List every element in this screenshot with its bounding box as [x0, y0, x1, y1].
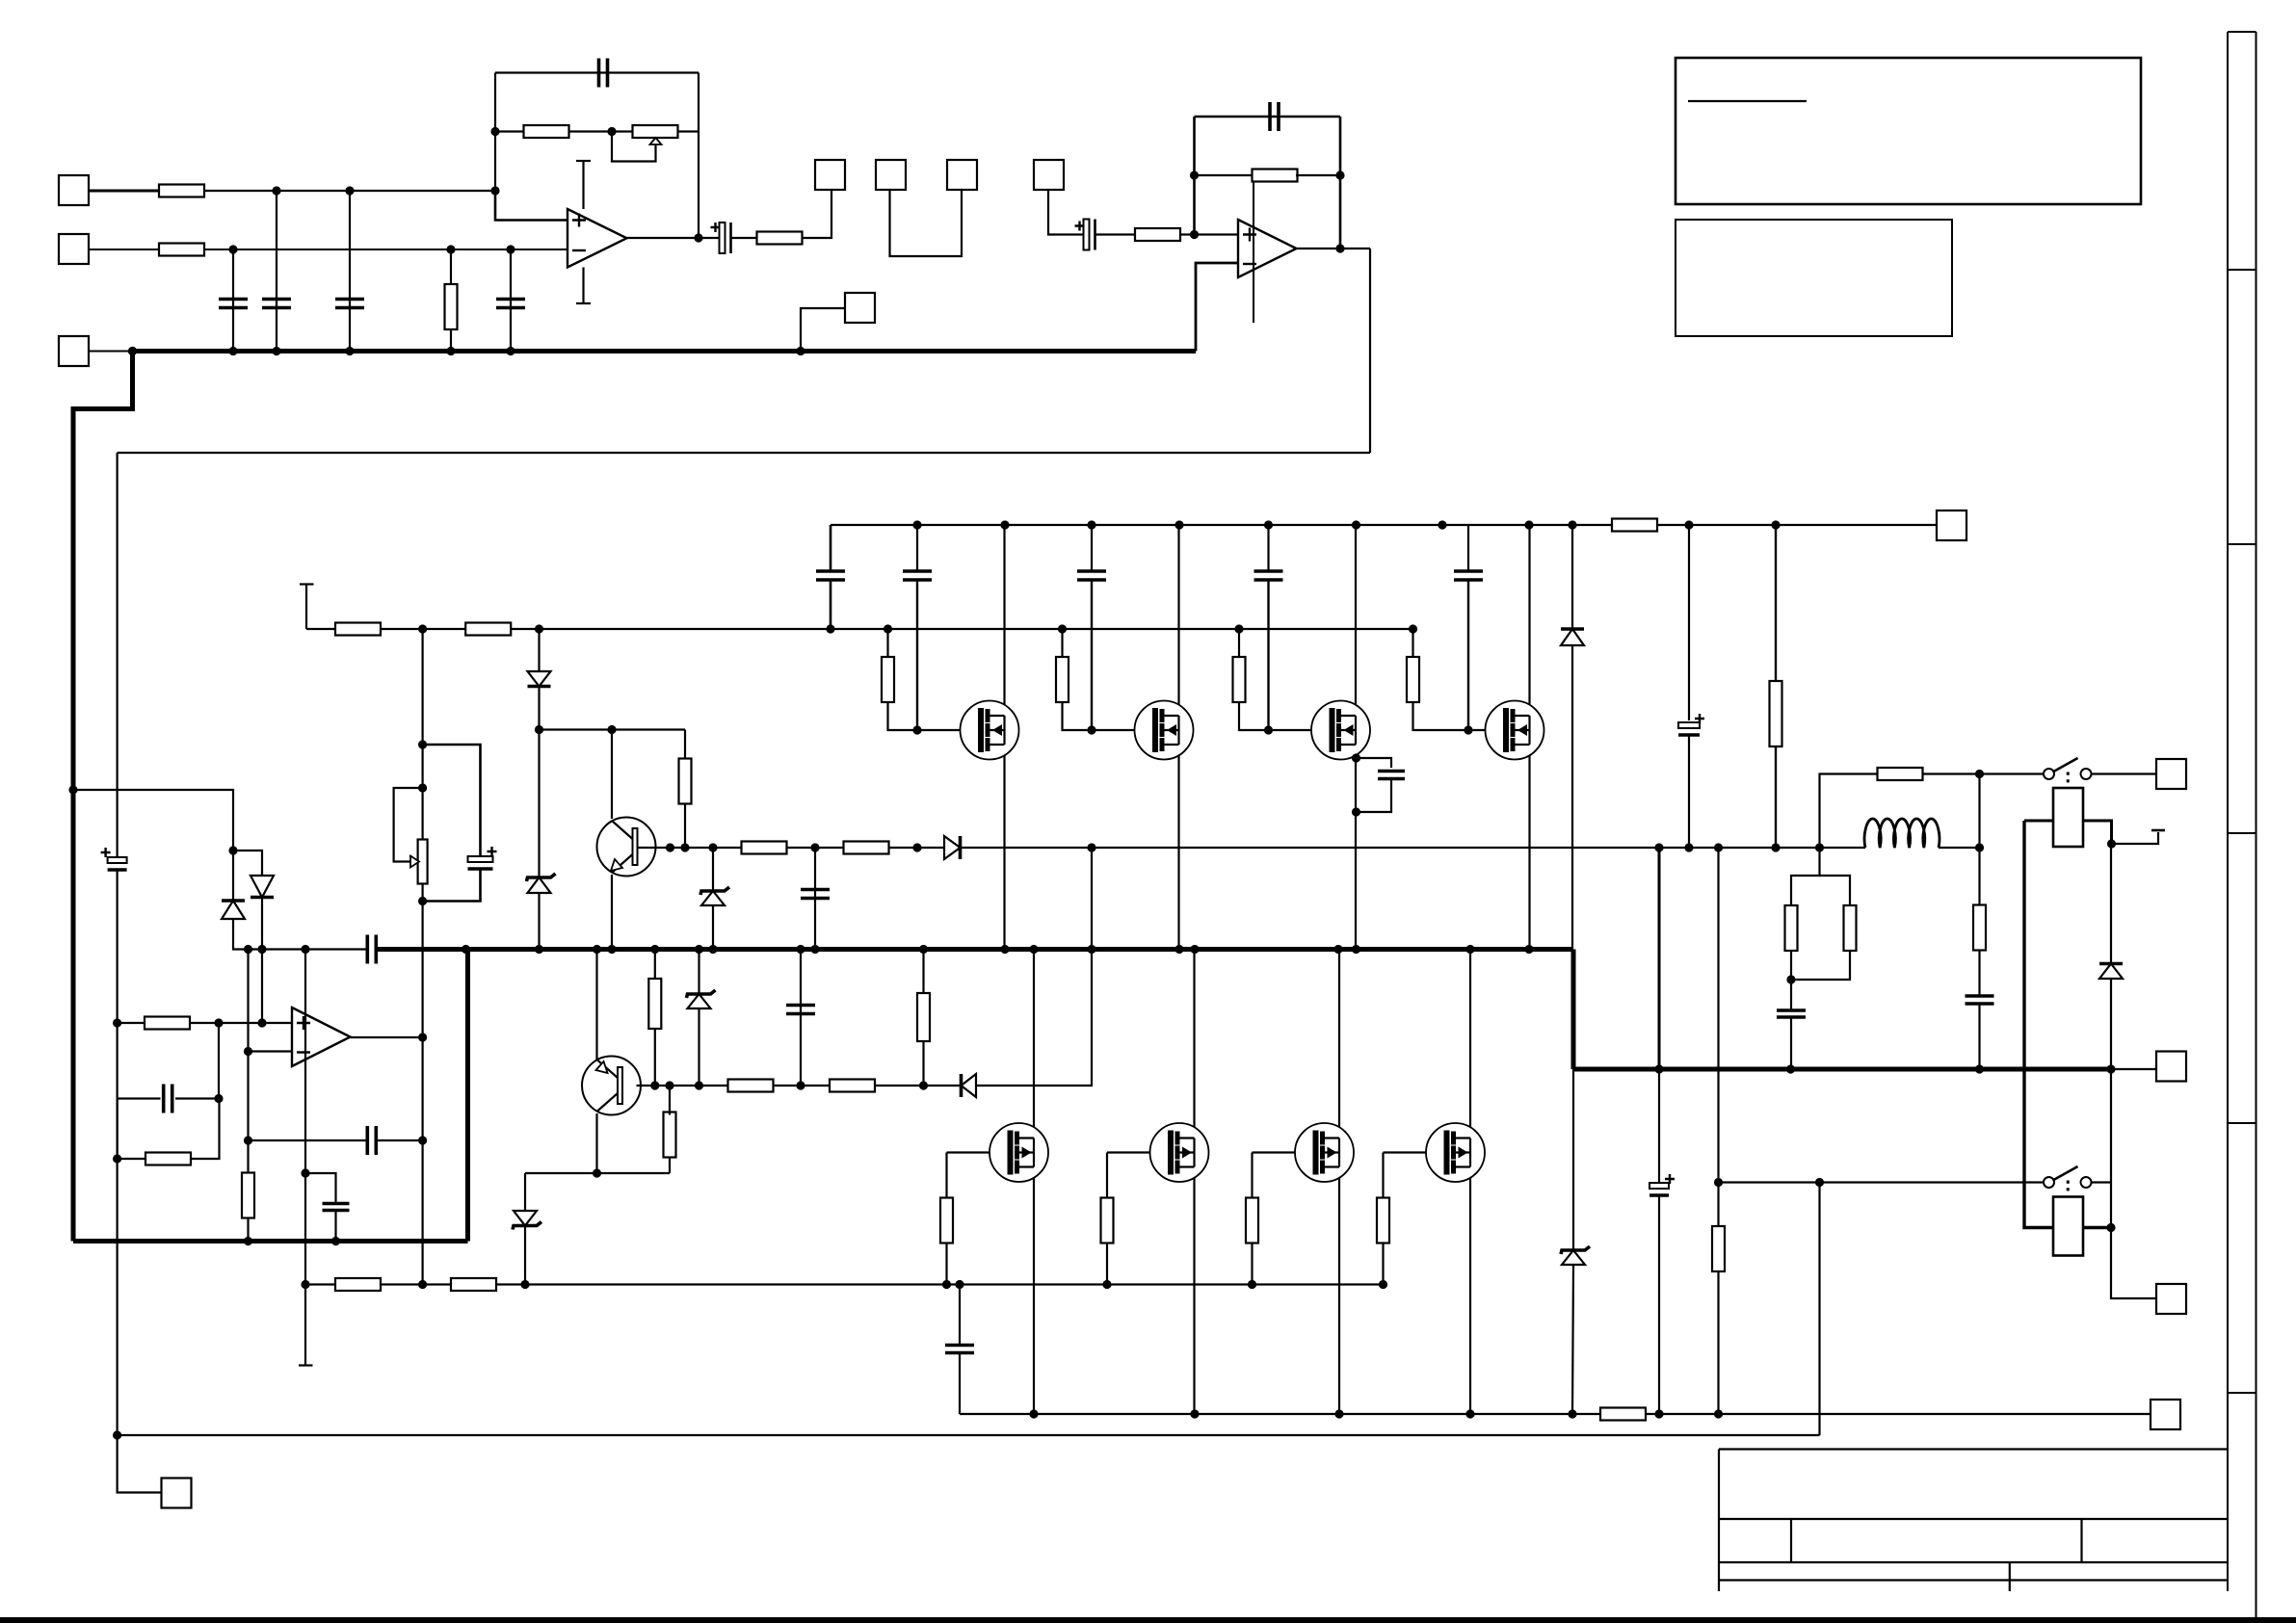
- wire zener ZD1 column: [538, 730, 540, 877]
- connector J8: [845, 293, 875, 323]
- wire damping R path right: [1922, 774, 1980, 849]
- wire M1 gate cap column upper: [916, 525, 918, 570]
- wire M1 source: [1003, 745, 1005, 950]
- capacitor C gate M3: [1254, 571, 1283, 580]
- wire R21 to right column: [191, 1099, 220, 1160]
- relay RL1 left terminal: [2024, 820, 2053, 823]
- wire M1 gate resistor lower: [888, 701, 918, 730]
- ground bus input dots: [128, 347, 515, 355]
- resistor R gate M7: [1246, 1198, 1258, 1243]
- wire M2 source: [1177, 745, 1179, 950]
- wire trimmer to right leg: [677, 130, 699, 132]
- wire U2 feedback right leg: [1339, 117, 1342, 249]
- wire L1 to output node: [1939, 847, 1980, 849]
- wire RL1 sense bracket: [2112, 832, 2159, 844]
- capacitor C gate M2: [1077, 571, 1106, 580]
- relay RL1 right terminal: [2083, 821, 2112, 844]
- wire M6 gate resistor lower: [1106, 1243, 1108, 1285]
- wire R18 lower: [922, 1041, 924, 1086]
- ground bus top thick: [133, 349, 1197, 353]
- bias line upper: [540, 728, 686, 730]
- drive line upper seg1: [637, 847, 743, 849]
- mosfet M5 p-channel: [990, 1123, 1048, 1182]
- wire M7 gate resistor lower: [1251, 1243, 1253, 1285]
- title block left: [1718, 1450, 1720, 1592]
- node U2 feedback mid: [1190, 170, 1345, 179]
- wire C12 column: [814, 848, 816, 950]
- wire R20 to bottom bus: [247, 1217, 249, 1242]
- collector line lower: [525, 1172, 670, 1174]
- node C17 bus: [331, 1237, 340, 1245]
- wire U2 feedback top: [1195, 116, 1341, 118]
- resistor R7 feedback: [1253, 170, 1298, 182]
- resistor R gate M1: [882, 657, 894, 702]
- power pin U2: [1253, 182, 1254, 324]
- node RL2 feed: [1815, 1178, 1824, 1187]
- connector J13: [2156, 1284, 2186, 1314]
- node minus column top: [244, 945, 252, 954]
- wire M8 gate resistor column: [1382, 1153, 1384, 1198]
- trimmer RV1: [633, 125, 678, 138]
- capacitor C2: [262, 300, 291, 308]
- wire U3 + input line: [118, 1022, 145, 1024]
- zener ZD4: [687, 990, 716, 1008]
- wire drive to mid bus: [1091, 848, 1093, 950]
- supply rail V+: [831, 524, 1937, 526]
- resistor R2: [159, 244, 204, 256]
- node bus tap 820: [68, 785, 77, 794]
- power rail U1 top bar: [576, 160, 591, 162]
- connector J4: [815, 160, 845, 190]
- zener ZD5: [1561, 1246, 1590, 1265]
- node bus end: [2106, 1064, 2115, 1073]
- wire M2 gate cap column lower: [1091, 581, 1093, 730]
- wire C6 to R5: [731, 237, 758, 239]
- wire D7 column upper: [2110, 844, 2112, 962]
- gate bus lower seg1: [306, 1283, 336, 1285]
- diode D3: [962, 1074, 977, 1097]
- drive line lower seg4: [976, 950, 1092, 1086]
- source rail bottom: [960, 1413, 1600, 1415]
- wire R3 column: [450, 249, 452, 352]
- node M3 aux cap: [1352, 753, 1360, 816]
- gate bus lower dots: [418, 1280, 1387, 1289]
- wire C21 column lower: [1658, 1195, 1660, 1414]
- node U1 output: [694, 233, 702, 242]
- power rail U1 bottom bar: [576, 302, 591, 304]
- capacitor C12: [801, 890, 830, 899]
- wire M1 drain: [1003, 525, 1005, 716]
- node RL1 terminal: [2107, 839, 2116, 848]
- wire M1 gate lead: [917, 729, 981, 731]
- power stub upper bar: [300, 583, 314, 585]
- wire R11 column: [684, 730, 686, 760]
- drive line lower dots: [650, 1081, 928, 1089]
- wire U2 output: [1297, 248, 1371, 249]
- wire C17 branch: [305, 1173, 336, 1204]
- diode D6: [1561, 629, 1584, 645]
- resistor R16: [830, 1080, 875, 1092]
- inductor L1: [1864, 819, 1940, 848]
- node bias top: [418, 740, 427, 792]
- wire C10 column upper: [830, 525, 832, 570]
- wire M2 gate resistor lower: [1063, 701, 1093, 730]
- capacitor C7 coupling: [1075, 220, 1095, 250]
- wire diode D1 column: [538, 629, 540, 671]
- node relay feed: [1714, 1178, 1723, 1187]
- bottom return line: [118, 1434, 1820, 1436]
- drive line lower seg3: [875, 1085, 962, 1086]
- wire zobel1 top right: [1820, 876, 1851, 906]
- wire to J13: [2111, 1228, 2156, 1299]
- wire ZD4 lower: [698, 1008, 699, 1086]
- resistor R28: [1844, 905, 1857, 951]
- mosfet M8 p-channel: [1426, 1123, 1485, 1182]
- wire J1 to R1: [89, 190, 159, 193]
- power rail U1 bottom: [582, 268, 584, 304]
- wire U1 + input: [495, 191, 567, 221]
- resistor R12: [742, 842, 787, 854]
- output bus step down: [1571, 950, 1576, 1070]
- wire C10 column lower: [830, 581, 832, 629]
- wire M5 gate resistor lower: [945, 1243, 947, 1285]
- wire C19 column upper: [1688, 525, 1690, 720]
- wire C21 column upper: [1658, 848, 1661, 1069]
- wire C19 column lower: [1688, 736, 1690, 848]
- wire minus column: [247, 950, 249, 1141]
- wire M1 gate resistor column: [886, 629, 888, 658]
- wire bus end to J12: [2111, 1068, 2156, 1070]
- wire M8 gate resistor lower: [1382, 1243, 1384, 1285]
- resistor R19: [145, 1017, 190, 1030]
- capacitor C17: [323, 1204, 350, 1211]
- wire M2 gate lead: [1092, 729, 1155, 731]
- wire R18 column: [922, 950, 924, 994]
- trimmer RV2 body: [418, 840, 428, 884]
- wire to J14: [118, 1435, 162, 1493]
- gate bus upper seg2: [381, 628, 466, 630]
- note box 1 underline: [1688, 100, 1807, 102]
- wire U1 feedback top: [495, 71, 699, 73]
- diode D1: [528, 671, 551, 687]
- connector J7: [1034, 160, 1064, 190]
- wire R17 column: [654, 950, 656, 980]
- wire M3 gate cap column upper: [1267, 525, 1269, 570]
- resistor R9: [335, 623, 381, 636]
- wire M3 drain: [1355, 525, 1357, 716]
- capacitor C gate M4: [1454, 571, 1483, 580]
- wire M4 drain: [1528, 525, 1530, 716]
- output bus dots: [462, 945, 1534, 954]
- power rail U1 top: [582, 161, 584, 209]
- resistor R17: [648, 979, 661, 1029]
- page border inner right: [2227, 32, 2229, 1591]
- wire U1 feedback left leg: [494, 73, 496, 192]
- mosfet M3 n-channel: [1311, 701, 1370, 760]
- bias line nodes: [535, 725, 617, 734]
- node diode pair top: [228, 846, 237, 854]
- page border bottom bar: [0, 1617, 2296, 1623]
- op-amp U2: [1238, 220, 1297, 277]
- wire C18 loop: [1357, 758, 1392, 768]
- wire M3 gate lead: [1269, 729, 1333, 731]
- node U3 output: [418, 1033, 427, 1144]
- wire U3 - input: [249, 1050, 293, 1052]
- op-amp U3: [292, 1008, 351, 1066]
- wire M6 gate resistor column: [1106, 1153, 1108, 1198]
- node RL2 terminal: [2106, 1223, 2115, 1232]
- wire zobel1 bottom left: [1790, 950, 1792, 980]
- resistor R11: [679, 759, 692, 804]
- node Q2 collector: [593, 1168, 601, 1177]
- node U2 output: [1335, 244, 1344, 252]
- zener ZD1: [527, 874, 556, 893]
- node sense gate bus: [301, 1280, 309, 1289]
- wire M4 gate cap column upper: [1467, 525, 1469, 570]
- resistor R10: [465, 623, 511, 636]
- ground bus bottom left: [73, 1239, 468, 1243]
- node U3 - input: [244, 1047, 252, 1056]
- wire M2 drain: [1177, 525, 1179, 716]
- drive line upper dots: [666, 843, 1824, 851]
- wire C4 column: [510, 249, 512, 352]
- drive line lower seg1: [637, 1085, 729, 1086]
- wire M6 drain: [1193, 950, 1195, 1139]
- wire R14 column: [669, 1155, 671, 1173]
- resistor R6: [1135, 228, 1180, 241]
- relay RL2 drive thick: [2024, 821, 2053, 1228]
- wire M2 gate resistor column: [1061, 629, 1063, 658]
- page border tick 3: [2228, 832, 2256, 834]
- title block col b: [2080, 1519, 2082, 1562]
- node feedback mid: [490, 127, 616, 136]
- switch S1 relay contact: [2044, 758, 2092, 787]
- wire Q2 emitter: [595, 950, 597, 1060]
- wire C16 to left column: [118, 1099, 161, 1160]
- node bias bottom: [418, 897, 427, 905]
- wire ZD5 column lower: [1572, 1265, 1573, 1414]
- resistor R23: [335, 1278, 381, 1291]
- gate bus lower seg3: [495, 1283, 1384, 1285]
- page border tick 2: [2228, 543, 2256, 545]
- wire R4 to trimmer: [568, 130, 633, 132]
- ground bus left drop: [73, 352, 133, 1242]
- wire zener ZD2 column: [712, 848, 714, 890]
- bias column mid: [422, 884, 424, 1285]
- capacitor C20: [945, 1346, 974, 1353]
- node U3 + input: [113, 1018, 267, 1027]
- node R20 bus: [244, 1237, 252, 1245]
- wire feedback return left column upper: [116, 453, 118, 856]
- capacitor C18: [1378, 772, 1405, 779]
- supply rail dots: [912, 520, 1780, 529]
- note box 2: [1676, 220, 1952, 336]
- gate bus upper dots: [418, 624, 1417, 633]
- node J8 bus: [796, 347, 805, 355]
- wire D6 column upper: [1571, 525, 1573, 628]
- wire U3 plus column x272: [261, 950, 263, 1024]
- drive line upper seg4: [962, 847, 1865, 849]
- mosfet M7 p-channel: [1295, 1123, 1354, 1182]
- wire R22 column lower: [1775, 746, 1777, 848]
- title block row line 3: [1719, 1579, 2228, 1581]
- wire M5 source: [1033, 1166, 1035, 1414]
- zener ZD3: [513, 1211, 541, 1230]
- wire R19 to U3: [190, 1022, 292, 1024]
- wire feedback C15: [249, 1139, 368, 1141]
- connector J1 input +: [59, 175, 89, 205]
- capacitor C21: [1649, 1174, 1675, 1195]
- resistor R26: [1712, 1226, 1725, 1271]
- wire R20 column: [247, 1140, 249, 1174]
- wire C1 column: [232, 249, 234, 352]
- wire R22 column upper: [1775, 525, 1777, 681]
- connector J3 input gnd: [59, 336, 89, 366]
- wire diode pair feed: [73, 790, 233, 851]
- power stub lower: [304, 1285, 306, 1366]
- wire relay feed column upper: [1717, 848, 1719, 1183]
- node M3 gate: [1264, 725, 1273, 734]
- resistor R14: [664, 1113, 676, 1158]
- wire U2 - input: [1196, 263, 1238, 352]
- connector J9 V+: [1937, 510, 1966, 540]
- wire R6 to U2 + input: [1179, 233, 1238, 235]
- wire U1 feedback mid: [495, 130, 524, 132]
- capacitor C15: [367, 1126, 376, 1155]
- diode D7: [2099, 964, 2123, 980]
- trimmer RV1 wiper arrow: [650, 138, 662, 144]
- resistor R3: [445, 284, 458, 329]
- wire C16 lead: [175, 1097, 219, 1099]
- capacitor C6 coupling: [711, 223, 731, 253]
- wire feedback return left column lower: [116, 871, 118, 1435]
- wire M3 gate resistor lower: [1239, 701, 1269, 730]
- wire ZD1 to bus: [538, 893, 540, 950]
- connector J14: [162, 1479, 192, 1508]
- source rail dots: [1029, 1409, 1723, 1418]
- resistor R22: [1770, 681, 1782, 746]
- capacitor C14 series: [367, 935, 376, 964]
- wire trimmer wiper: [612, 132, 656, 162]
- page border outer right: [2256, 32, 2257, 1618]
- wire diode pair branch right: [233, 851, 262, 876]
- resistor R gate M4: [1407, 657, 1419, 702]
- drive line lower seg2: [773, 1085, 831, 1086]
- transistor Q1: [597, 818, 656, 877]
- wire ZD2 to bus: [712, 905, 714, 950]
- wire M4 source: [1528, 745, 1530, 950]
- resistor R25: [1600, 1408, 1646, 1421]
- capacitor C4: [496, 300, 525, 308]
- relay RL2 coil: [2053, 1197, 2083, 1256]
- capacitor C5 feedback: [599, 59, 608, 88]
- wire Q1 collector: [611, 730, 613, 820]
- bottom return riser: [1818, 1183, 1820, 1436]
- wire R14 to drive line: [669, 1086, 671, 1115]
- resistor R8 rail: [1612, 519, 1657, 532]
- relay RL2 feed line: [1719, 1181, 2045, 1183]
- wire S2 to column: [2092, 1181, 2112, 1183]
- wire M2 gate cap column upper: [1091, 525, 1093, 570]
- capacitor C23: [1966, 996, 1994, 1004]
- wire R21 lead left: [118, 1158, 146, 1160]
- resistor R4 feedback: [524, 125, 569, 138]
- output bus thick: [377, 947, 1574, 952]
- capacitor C13: [786, 1006, 815, 1014]
- wire C22 lead: [1790, 980, 1792, 1010]
- source rail bottom right: [1646, 1413, 2151, 1415]
- switch S2 relay contact: [2044, 1166, 2092, 1195]
- wire ZD5 column upper: [1572, 1069, 1574, 1249]
- wire R26 leads: [1717, 1183, 1719, 1227]
- wire M1 gate cap column lower: [916, 581, 918, 730]
- wire U2 feedback mid left: [1195, 174, 1254, 176]
- resistor R13: [844, 842, 889, 854]
- wire C20 column upper: [959, 1285, 961, 1346]
- connector J12 output: [2156, 1052, 2186, 1082]
- wire M8 source: [1469, 1166, 1471, 1414]
- page border tick top: [2228, 31, 2256, 33]
- wire M3 gate resistor column: [1238, 629, 1240, 658]
- wire C22 to bus: [1790, 1017, 1792, 1069]
- wire U1 feedback right leg: [698, 73, 699, 239]
- diode D5: [222, 901, 245, 919]
- wire M4 gate lead: [1468, 729, 1506, 731]
- wire M3 source: [1355, 745, 1357, 950]
- wire C2 column: [276, 191, 277, 352]
- wire M7 gate lead: [1253, 1151, 1316, 1153]
- wire M4 gate resistor lower: [1413, 701, 1469, 730]
- node signal line: [257, 945, 309, 954]
- node wire1 junctions: [272, 186, 499, 195]
- wire R7 to right leg: [1296, 174, 1340, 176]
- wire R1 to opamp U1 + node: [204, 190, 495, 192]
- resistor R gate M3: [1233, 657, 1246, 702]
- title block top: [1719, 1448, 2228, 1450]
- wire zobel1 top: [1791, 848, 1820, 906]
- node wire2 junctions: [228, 245, 515, 253]
- node output: [1975, 843, 1984, 851]
- wire R5 to J4: [802, 191, 831, 238]
- page border tick 1: [2228, 269, 2256, 271]
- page border tick 5: [2228, 1392, 2256, 1394]
- wire M3 gate cap column lower: [1267, 581, 1269, 730]
- wire U1 output: [627, 237, 724, 239]
- node U2 + input: [1190, 230, 1199, 239]
- wire C13 column: [800, 950, 802, 1086]
- resistor R gate M8: [1377, 1198, 1389, 1243]
- wire D5 down: [233, 919, 262, 950]
- capacitor C gate M1: [903, 571, 932, 580]
- resistor R30: [1973, 905, 1986, 951]
- drive line upper seg3: [889, 847, 945, 849]
- node return left: [113, 1430, 121, 1439]
- resistor R gate M2: [1056, 657, 1069, 702]
- node lower drive bus: [1087, 945, 1095, 954]
- wire M8 gate lead: [1384, 1151, 1447, 1153]
- power stub lower bar: [299, 1364, 313, 1366]
- wire damping R path left: [1820, 774, 1879, 849]
- wire D1 to bias line: [538, 688, 540, 730]
- capacitor C19: [1678, 714, 1704, 735]
- wire S1 to J11: [2092, 772, 2157, 774]
- bias column upper: [422, 629, 424, 840]
- wire C23 to bus: [1978, 1004, 1980, 1069]
- resistor R24: [451, 1278, 496, 1291]
- capacitor C8 feedback: [1270, 102, 1279, 131]
- wire J7 to C7: [1048, 191, 1084, 235]
- wire Q2 collector: [595, 1113, 597, 1173]
